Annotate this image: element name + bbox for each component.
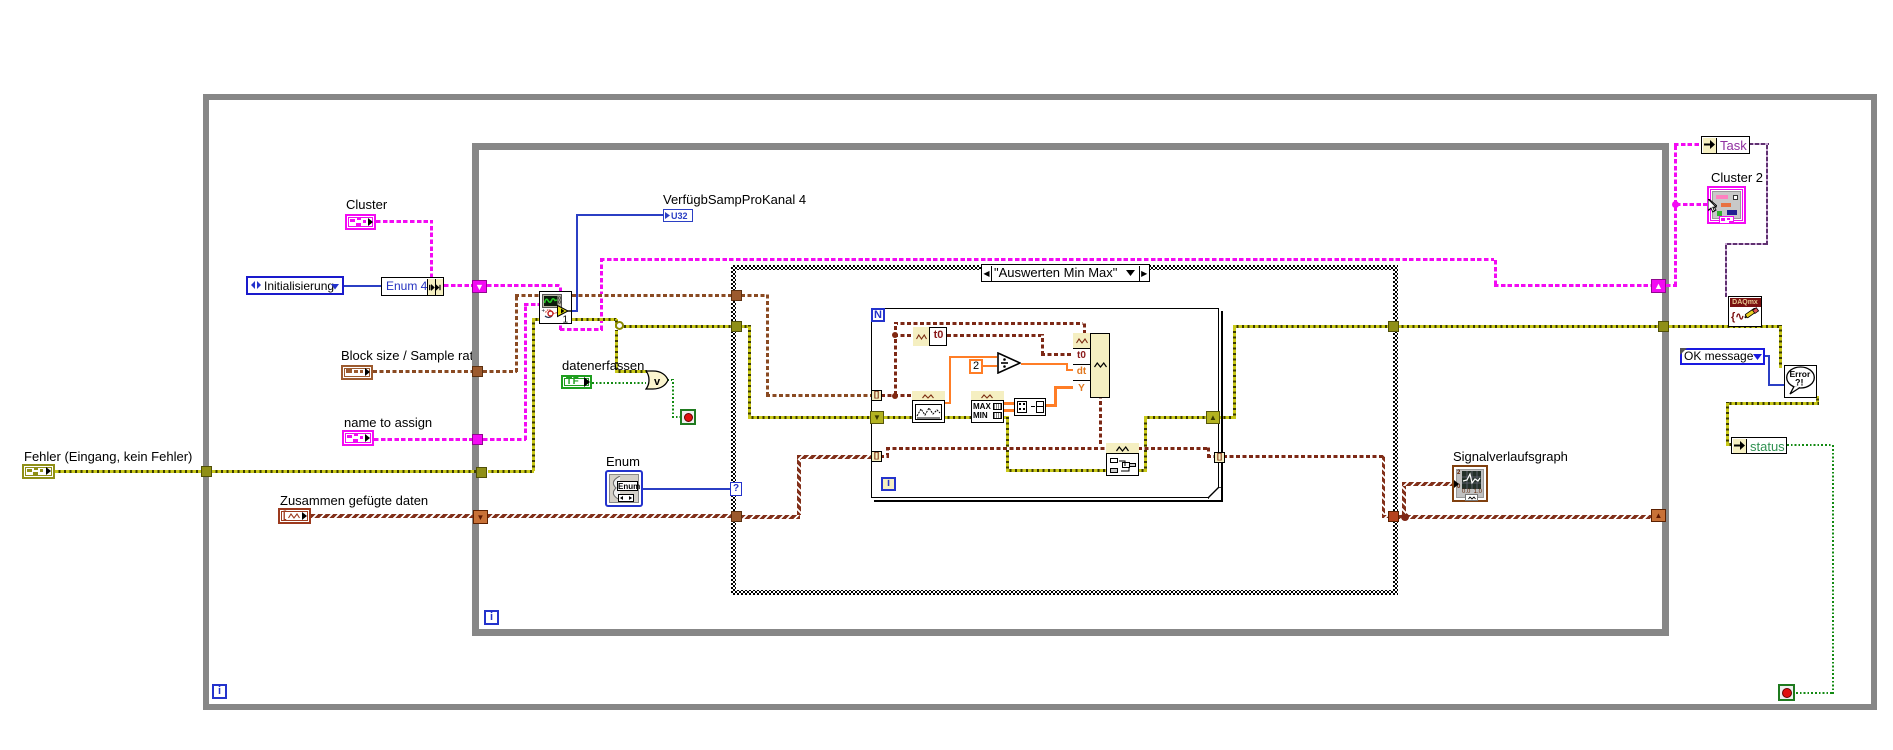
wire bool or out — [667, 379, 674, 381]
wire built wf down — [1099, 398, 1102, 444]
ring constant OK message — [1680, 348, 1765, 365]
or gate — [645, 370, 669, 390]
case tunnel wfarray left — [731, 511, 742, 522]
wire to Task terminal — [1674, 143, 1702, 146]
case structure border — [731, 265, 1398, 595]
constant 2 — [969, 359, 983, 374]
wire arr to build y — [1054, 386, 1074, 389]
wire bool tf to or — [592, 382, 646, 384]
local variable Task — [1701, 136, 1750, 154]
outer loop i terminal — [212, 684, 227, 699]
control datenerfassen TF — [561, 375, 592, 389]
wire task left — [1727, 243, 1766, 245]
wire cluster out — [376, 220, 433, 223]
wire bool down right — [1832, 444, 1834, 694]
node array-max-min — [971, 391, 1004, 423]
label Zusammen gefuegte daten — [280, 494, 428, 508]
label Fehler — [24, 450, 192, 464]
wire cluster to forloop — [766, 394, 871, 397]
wire error to append — [1006, 469, 1106, 472]
vi DAQmx Clear Task — [1728, 296, 1762, 327]
control Block size — [341, 365, 373, 380]
svg-text:+: + — [541, 308, 545, 314]
label datenerfassen — [562, 359, 644, 373]
wire wfarr to tunnel — [1207, 455, 1215, 458]
node get-t0 — [913, 327, 947, 346]
wire error down right — [1779, 325, 1782, 368]
local variable status — [1731, 437, 1787, 454]
node get-waveform-components — [912, 391, 945, 423]
wire buildarr out — [1045, 404, 1057, 407]
for loop border — [871, 308, 1219, 498]
wire okmsg out — [1764, 355, 1770, 357]
wire divide jog — [1066, 363, 1068, 371]
wire error drop case — [748, 325, 751, 418]
tunnel [] top — [871, 390, 882, 401]
wire task to clear vi — [1725, 243, 1727, 297]
wire error branch to or — [615, 330, 618, 373]
wire cluster in case — [741, 294, 769, 297]
wire wfarray from ctl — [311, 514, 473, 518]
case tunnel wfarray right — [1388, 511, 1399, 522]
wire wfarr append out — [1138, 447, 1209, 450]
wire error up — [532, 319, 535, 471]
wire wfarray case to sr — [1399, 515, 1652, 519]
control Zusammen gefuegte daten — [278, 508, 311, 524]
shift register right (task, magenta) — [1651, 279, 1666, 293]
svg-text:1: 1 — [562, 314, 568, 323]
shift register left (olive) — [870, 411, 884, 424]
wire wfarray to case — [488, 514, 732, 518]
for loop page curl — [1208, 487, 1221, 499]
wire branch to cluster2 — [1676, 203, 1708, 206]
wire wfarr to case tunnel — [1382, 515, 1390, 518]
wire wfarray branch up — [1402, 484, 1406, 515]
wire wf tunnel to getwf — [881, 394, 912, 397]
tunnel error inner right — [1658, 321, 1669, 332]
wire error sr right out — [1220, 416, 1236, 419]
wire error run left — [1726, 402, 1819, 405]
case structure interior — [736, 270, 1393, 590]
wire shiftreg to read vi — [487, 284, 561, 287]
wire error from ctl — [55, 470, 203, 473]
wire bool to stop2 — [1796, 692, 1832, 694]
wire task up right — [1674, 144, 1677, 286]
shift register left (task, magenta) — [472, 280, 487, 293]
node build-array — [1014, 398, 1046, 416]
wire wfarr step left — [886, 447, 889, 457]
stop terminal inner — [680, 409, 696, 425]
node build-waveform — [1073, 333, 1110, 398]
wire right sr out — [1666, 284, 1677, 287]
wire task out run — [560, 328, 603, 331]
wire name-to-assign out — [374, 438, 473, 441]
wire error to right sr — [1144, 416, 1207, 419]
wire blocksize in loop — [483, 370, 517, 373]
shift register right (wf array) — [1651, 509, 1666, 522]
case tunnel error right — [1388, 321, 1399, 332]
wire blocksize up — [515, 295, 518, 372]
wire error to case — [615, 325, 736, 328]
control name to assign — [342, 430, 374, 446]
wire error to forloop sr — [748, 416, 871, 419]
wire task down — [1766, 143, 1768, 245]
wire error vi out — [1816, 396, 1819, 404]
shift register left (wf array) — [473, 510, 488, 524]
wire error append out — [1138, 469, 1147, 472]
wire wfarr bottom in — [886, 447, 1106, 450]
tunnel block size — [472, 366, 483, 377]
wire wf t0 to build — [1041, 353, 1074, 356]
node Enum 4 — [381, 277, 444, 296]
junction wfarray — [1401, 513, 1409, 521]
case selector terminal — [730, 482, 742, 496]
wire wfarray up case — [797, 456, 801, 515]
tunnel [] bottom-left — [871, 451, 882, 462]
wire max out — [1003, 402, 1014, 405]
wire okmsg drop — [1768, 355, 1770, 386]
wire error drop in loop — [1006, 416, 1009, 472]
wire task long top — [600, 258, 1497, 261]
inner loop i terminal — [484, 610, 499, 625]
divide node — [997, 352, 1021, 374]
case selector label — [981, 264, 1150, 282]
wire error case to loop edge — [1398, 325, 1659, 328]
junction wf B — [892, 393, 898, 399]
wire bool to stop — [672, 416, 681, 418]
wire name in loop — [483, 438, 526, 441]
wire name up — [524, 304, 527, 440]
wire samples to u32 — [576, 214, 663, 216]
wire wfarr down case — [1382, 455, 1385, 518]
tunnel error inner — [476, 467, 487, 478]
wire error getwf to maxmin — [944, 416, 971, 419]
node append-waveforms — [1106, 443, 1139, 476]
wire error maxmin out — [1003, 416, 1009, 419]
wire divide to build — [1066, 369, 1074, 371]
junction task wire — [1672, 201, 1679, 208]
wire samples up — [576, 214, 578, 312]
svg-text:v: v — [654, 376, 661, 388]
indicator Signalverlaufsgraph — [1452, 465, 1488, 502]
stop terminal outer — [1778, 684, 1795, 701]
wire error to inner loop — [212, 470, 478, 473]
tunnel name to assign — [472, 434, 483, 445]
enum constant Initialisierung — [246, 276, 344, 295]
wire okmsg to error vi — [1768, 384, 1784, 386]
wire error to status — [1726, 443, 1732, 446]
wire bool drop — [672, 379, 674, 418]
indicator Cluster 2 — [1707, 186, 1746, 224]
wire blocksize out — [373, 370, 472, 373]
wire min out — [1003, 409, 1014, 412]
label Cluster — [346, 198, 387, 212]
wire error from read vi — [572, 318, 617, 321]
label Signalverlaufsgraph — [1453, 450, 1568, 464]
outer while loop — [203, 94, 1877, 710]
wire wf to t0 node — [894, 334, 913, 337]
wire into read vi top — [559, 286, 562, 292]
wire read vi samples out — [572, 310, 578, 312]
control Cluster — [345, 214, 376, 230]
wire error in loop — [488, 470, 534, 473]
wire error to case edge — [1233, 325, 1388, 328]
wire cluster drop case — [766, 294, 769, 396]
tunnel error outer — [201, 466, 212, 477]
for loop stacked right edge — [1221, 311, 1223, 501]
wire error to or gate — [615, 370, 647, 373]
wire wf t0 down — [1041, 334, 1044, 355]
wire error sr to getwf — [884, 416, 912, 419]
wire wfarray in case — [741, 515, 800, 519]
vi Enum — [605, 470, 643, 507]
shift register right (olive) — [1206, 411, 1220, 424]
indicator U32 — [663, 209, 693, 222]
wire const2 to divide — [983, 365, 997, 367]
case tunnel blocksize — [731, 290, 742, 301]
wire dbl getwf out — [944, 402, 951, 404]
wire wf junction vert — [894, 324, 897, 395]
wire error up case — [1233, 325, 1236, 419]
wire error jog — [615, 319, 618, 326]
wire blocksize to vi — [515, 294, 540, 297]
wire wfarr step right — [1207, 447, 1210, 458]
wire enum4 to shiftreg — [444, 284, 474, 287]
wire wfarray to graph — [1402, 482, 1452, 486]
wire wf t0 out — [947, 334, 1043, 337]
label Enum — [606, 455, 640, 469]
wire wfarray to forloop — [797, 455, 871, 459]
wire error in case — [741, 325, 751, 328]
control Fehler — [22, 464, 55, 479]
for loop stacked bottom edge — [874, 500, 1223, 502]
wire wf t0 top run — [894, 322, 1085, 325]
junction wf A — [892, 332, 898, 338]
svg-text:?!: ?! — [1795, 378, 1804, 388]
wire divide out — [1021, 363, 1068, 365]
label Block size — [341, 349, 472, 363]
wire task up — [600, 259, 603, 330]
wire samplerate across vi — [572, 294, 736, 297]
wire error down to status — [1726, 402, 1729, 445]
tunnel [] bottom-right — [1214, 452, 1225, 463]
wire arr up — [1054, 386, 1057, 407]
vi DAQmx Read — [539, 291, 572, 324]
for loop i terminal — [881, 477, 896, 491]
label name to assign — [344, 416, 432, 430]
label Cluster 2 — [1711, 171, 1763, 185]
wire dbl up — [949, 356, 951, 404]
wire wfarr from tunnel — [880, 455, 889, 458]
wire bool status out — [1787, 444, 1834, 446]
wire task terminal out — [1749, 143, 1769, 145]
wire error up in loop — [1144, 417, 1147, 472]
wire name to vi — [524, 303, 540, 306]
wire task step down — [1494, 258, 1497, 285]
case tunnel error left — [731, 321, 742, 332]
inner while loop — [472, 143, 1669, 636]
vi Simple Error Handler — [1784, 365, 1817, 398]
for loop N terminal — [871, 308, 885, 322]
wire error to clear vi — [1669, 325, 1782, 328]
wire enum const wire — [344, 285, 381, 287]
wire dbl to divide — [949, 356, 997, 358]
wire task to right sr — [1494, 284, 1652, 287]
mouse cursor — [1708, 199, 1717, 213]
label VerfuegbSampProKanal 4 — [663, 193, 806, 207]
wire wfarr tunnel to corner — [1223, 455, 1385, 458]
wire error to read vi — [532, 318, 540, 321]
junction error wire — [615, 321, 624, 330]
wire cluster drop — [430, 220, 433, 278]
wire read vi task out — [559, 323, 562, 330]
wire enum vi to selector — [643, 488, 730, 490]
wire wf t0 top drop — [1083, 322, 1086, 334]
